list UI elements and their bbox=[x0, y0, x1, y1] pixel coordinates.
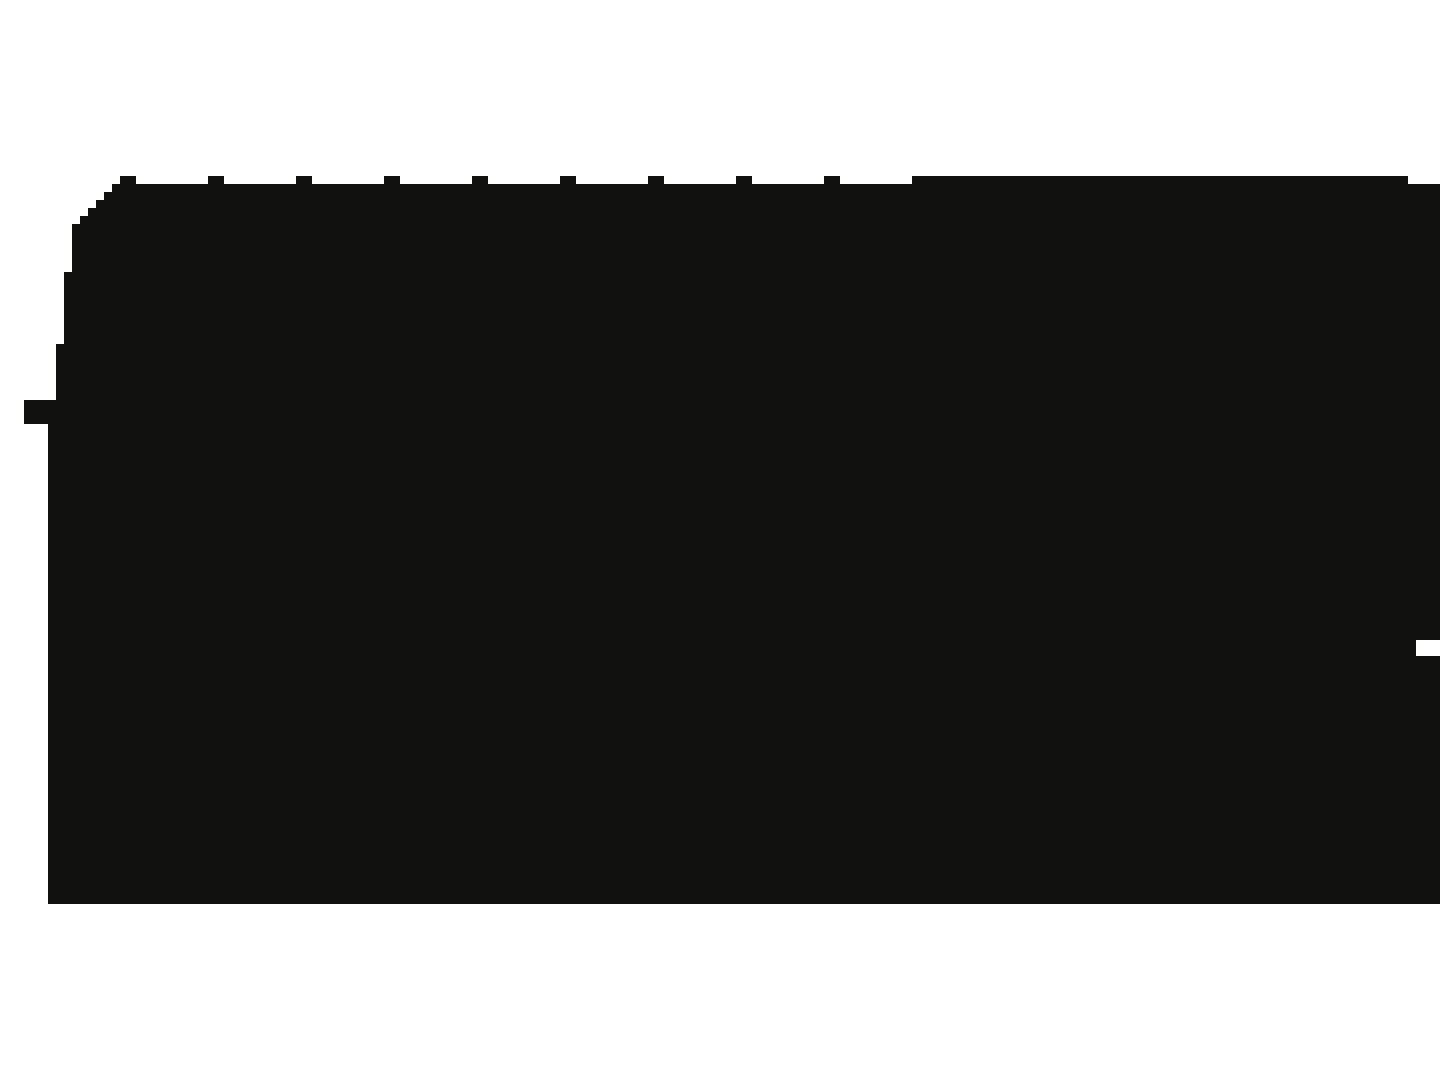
roof bump 7 bbox=[648, 176, 664, 185]
roof bump 3 bbox=[296, 176, 312, 185]
roof bump 4 bbox=[384, 176, 400, 185]
silhouette body bbox=[24, 184, 1440, 904]
roof bump 2 bbox=[208, 176, 224, 185]
roof bump 8 bbox=[736, 176, 752, 185]
roof bump 9 bbox=[824, 176, 840, 185]
right edge white notch bbox=[1416, 640, 1440, 656]
roof bump 6 bbox=[560, 176, 576, 185]
roof bump 5 bbox=[472, 176, 488, 185]
roof bump 1 bbox=[120, 176, 136, 185]
raised roof section bbox=[912, 176, 1408, 185]
